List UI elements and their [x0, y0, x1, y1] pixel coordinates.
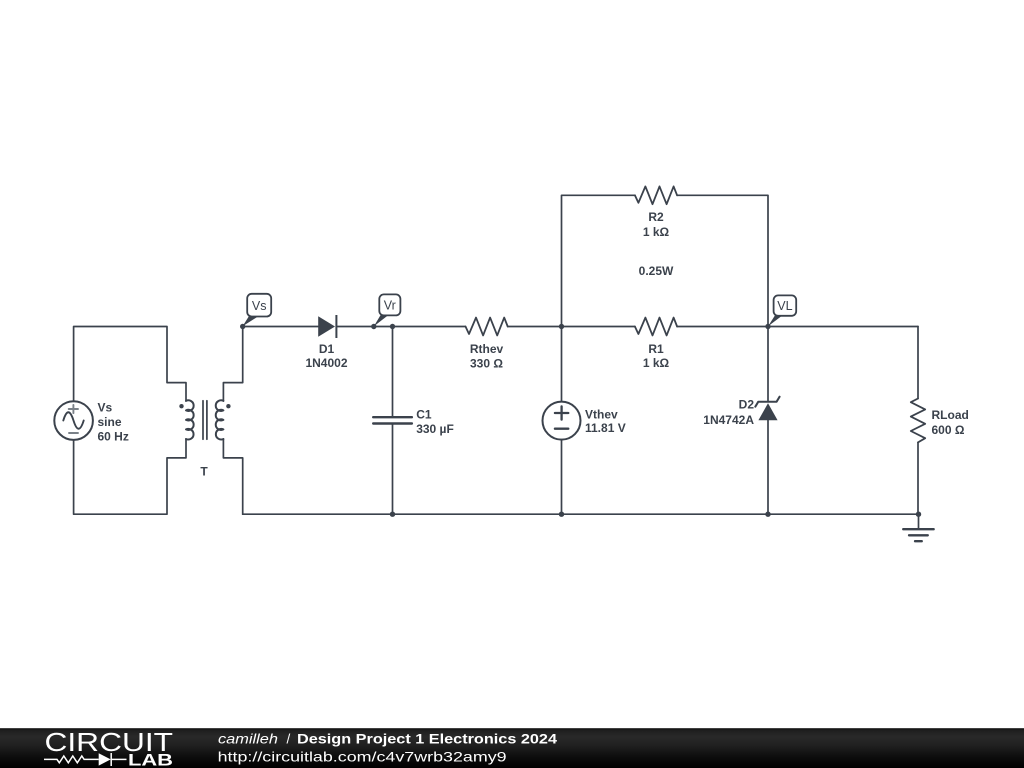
plus sign Vthev [555, 406, 568, 419]
junction node VL [765, 324, 770, 329]
wire RLoad branch bottom [917, 442, 919, 514]
zener D2 triangle [758, 403, 777, 420]
wire capacitor branch bottom [392, 425, 394, 515]
svg-text:1 kΩ: 1 kΩ [643, 225, 670, 239]
transformer T secondary coil [216, 400, 224, 439]
wire D2 branch top [767, 327, 769, 402]
wire D2 branch bottom [767, 420, 769, 514]
diode D1 triangle [318, 316, 335, 336]
wire left loop bottom [74, 439, 186, 514]
resistor Rthev [466, 318, 508, 336]
junction node cap bottom [390, 512, 395, 517]
voltage source Vs circle [54, 401, 93, 440]
junction node Vs [240, 324, 245, 329]
wire left loop top [74, 327, 186, 402]
svg-text:Vs: Vs [252, 299, 267, 313]
svg-text:Vr: Vr [384, 298, 396, 312]
junction node Vr flag attach [371, 324, 376, 329]
svg-text:Rthev: Rthev [470, 342, 504, 356]
svg-text:C1: C1 [416, 408, 432, 422]
wire R2 branch right vertical [677, 195, 768, 326]
resistor RLoad [911, 399, 925, 443]
wire Vthev branch bottom [561, 440, 563, 515]
svg-text:T: T [200, 465, 208, 479]
svg-text:1 kΩ: 1 kΩ [643, 356, 670, 370]
svg-text:RLoad: RLoad [932, 408, 969, 422]
svg-text:Design Project 1 Electronics 2: Design Project 1 Electronics 2024 [297, 731, 557, 747]
svg-text:http://circuitlab.com/c4v7wrb3: http://circuitlab.com/c4v7wrb32amy9 [218, 749, 507, 765]
transformer polarity dot primary [179, 404, 183, 408]
junction node Vthev bottom [559, 512, 564, 517]
flag Vs [243, 294, 272, 326]
junction node capacitor top [390, 324, 395, 329]
wire bottom rail [243, 513, 919, 515]
wire main top rail segment 1 [243, 326, 319, 328]
resistor R1 [635, 318, 677, 336]
svg-text:/: / [287, 732, 291, 747]
svg-text:1N4002: 1N4002 [305, 356, 347, 370]
svg-text:600 Ω: 600 Ω [932, 423, 965, 437]
wire capacitor branch top [392, 327, 394, 417]
svg-text:sine: sine [98, 415, 122, 429]
svg-text:D1: D1 [319, 342, 335, 356]
wire R2 branch left vertical [562, 195, 635, 326]
svg-text:D2: D2 [739, 398, 755, 412]
wire secondary top [223, 327, 242, 401]
minus sign Vthev [555, 428, 568, 430]
wire after D1 [336, 326, 465, 328]
ground bars [903, 529, 934, 541]
zener D2 cathode bar [755, 397, 779, 407]
plus sign Vs [69, 405, 78, 413]
voltage source Vthev circle [543, 402, 581, 440]
svg-text:R1: R1 [648, 342, 664, 356]
svg-text:VL: VL [777, 299, 792, 313]
svg-text:LAB: LAB [128, 752, 173, 768]
logo resistor-diode symbol [44, 753, 127, 766]
svg-text:1N4742A: 1N4742A [703, 413, 754, 427]
svg-text:0.25W: 0.25W [639, 264, 674, 278]
minus sign Vs [69, 432, 78, 434]
svg-text:Vthev: Vthev [585, 407, 618, 421]
svg-text:R2: R2 [648, 210, 664, 224]
svg-text:11.81 V: 11.81 V [585, 421, 626, 435]
ground stub [918, 514, 920, 529]
wire Rthev to junction to R1 [508, 326, 635, 328]
transformer T core lines [203, 401, 207, 440]
svg-text:330 µF: 330 µF [416, 422, 454, 436]
svg-text:camilleh: camilleh [218, 732, 278, 747]
flag VL [768, 295, 796, 326]
svg-text:60 Hz: 60 Hz [98, 429, 129, 443]
resistor R2 [635, 186, 677, 204]
capacitor C1 plates [373, 417, 412, 423]
wire secondary bottom [223, 439, 242, 514]
junction node D2 bottom [765, 512, 770, 517]
logo diode triangle [99, 753, 111, 765]
transformer T primary coil [186, 400, 194, 439]
transformer polarity dot secondary [226, 404, 230, 408]
svg-text:Vs: Vs [98, 400, 113, 414]
diode D1 cathode bar [335, 315, 337, 338]
sine symbol inside Vs [63, 412, 83, 429]
junction node mid rail [559, 324, 564, 329]
wire RLoad branch top [917, 327, 919, 399]
junction node ground [916, 512, 921, 517]
wire R1 to VL to right corner [677, 326, 918, 328]
flag Vr [374, 294, 401, 326]
svg-text:330 Ω: 330 Ω [470, 356, 503, 370]
wire Vthev branch top [561, 327, 563, 402]
